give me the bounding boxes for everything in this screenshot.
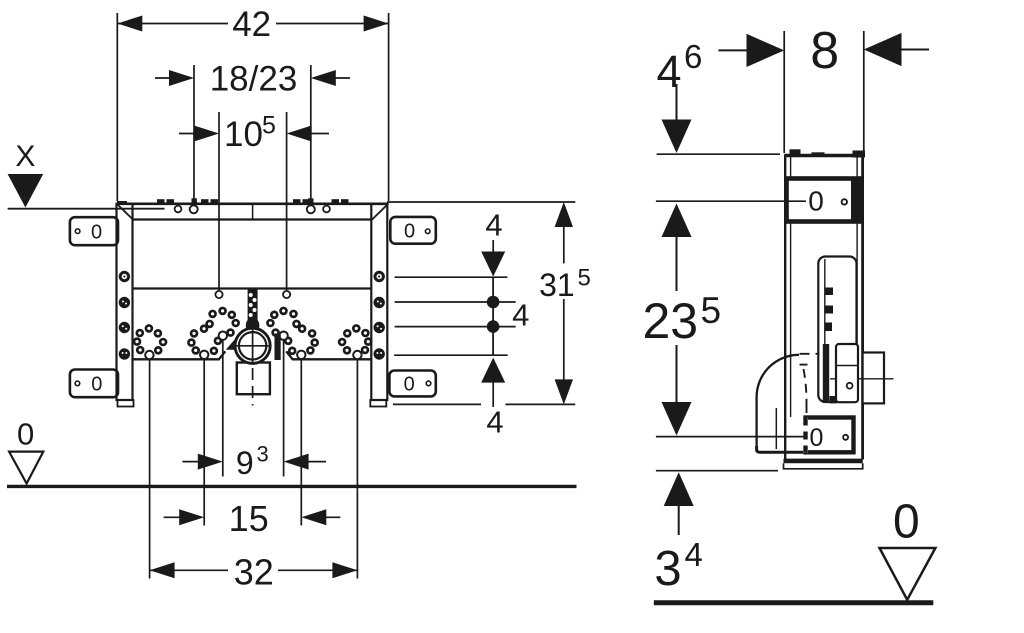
dimension 4.6 horizontal arrow	[718, 49, 748, 51]
frame bottom rail line right segment	[286, 351, 371, 359]
frame mid rail line	[133, 287, 372, 289]
leader line bolt row 3	[395, 326, 516, 328]
dimension 4.6 vertical line	[676, 84, 678, 124]
dimension 31.5 top extension line	[387, 201, 575, 203]
frame top-left corner bevel	[118, 205, 134, 221]
right ground line	[654, 600, 934, 605]
frame bottom rail line left segment	[133, 351, 226, 359]
dimension 32 arrowhead right	[332, 562, 357, 578]
dimension 18/23 extension line right	[310, 65, 312, 205]
dimension 9.3 arrow right	[305, 461, 326, 463]
top tab right corner	[853, 151, 866, 158]
upper fixing box	[787, 179, 861, 222]
anchor ring 10.5 right	[283, 291, 290, 298]
frame bottom thick bar	[784, 459, 863, 464]
leader line bolt row 2	[395, 301, 516, 303]
elbow inner line	[775, 408, 777, 449]
svg-text:32: 32	[234, 552, 274, 593]
mounting tab bottom-right	[389, 371, 435, 397]
wall top extension line	[657, 153, 780, 155]
elbow hidden right edge (dashed)	[806, 404, 808, 448]
flush mechanism hole	[847, 383, 853, 389]
svg-text:6: 6	[684, 38, 702, 75]
leader line bolt row 4	[394, 354, 508, 356]
svg-text:42: 42	[232, 5, 271, 44]
lower fixing box	[806, 418, 854, 453]
svg-text:0: 0	[404, 220, 415, 242]
left wall inner line	[790, 157, 792, 417]
svg-text:4: 4	[486, 405, 503, 440]
pipe outer circle	[235, 328, 270, 363]
cistern rounded rect	[818, 257, 856, 403]
frame foot outline	[784, 463, 863, 469]
extension line 9.3 right	[283, 340, 285, 477]
leader to lower box	[656, 436, 804, 438]
outlet spigot right	[863, 353, 884, 404]
right ground reference triangle	[880, 548, 936, 600]
dimension 18/23 arrow left	[155, 77, 173, 79]
dimension 31.5 vertical line	[563, 222, 565, 263]
cistern clip 1	[825, 288, 834, 296]
svg-text:10: 10	[224, 115, 263, 154]
svg-text:3: 3	[257, 442, 269, 467]
svg-text:X: X	[15, 140, 35, 173]
dimension 32 arrowhead left	[150, 562, 175, 578]
top tab middle	[812, 152, 825, 156]
cistern clip 2	[825, 306, 834, 314]
svg-text:4: 4	[485, 208, 502, 243]
elbow socket bottom	[757, 446, 804, 452]
dimension 42 extension line right	[388, 13, 390, 201]
svg-text:8: 8	[810, 22, 839, 80]
dimension 15 arrow left	[164, 516, 183, 518]
left column	[117, 204, 133, 400]
svg-text:4: 4	[656, 46, 681, 97]
extension line 15 left	[203, 359, 205, 526]
hole cluster c4	[339, 325, 371, 353]
mounting tab bottom-left	[70, 370, 118, 398]
extension line 15 right	[300, 359, 302, 526]
dimension anchor rings	[145, 332, 361, 360]
dimension 15 arrow right	[322, 516, 340, 518]
left column bolts	[119, 271, 130, 360]
svg-text:0: 0	[809, 424, 823, 452]
svg-text:3: 3	[654, 542, 681, 596]
dimension 42 arrowhead left	[117, 16, 142, 32]
svg-text:5: 5	[262, 112, 276, 140]
cistern clip 3	[825, 323, 833, 332]
lower fixing box hole	[843, 435, 848, 440]
svg-text:4: 4	[685, 536, 703, 573]
clamp wedge left of pipe	[226, 338, 236, 350]
frame top edge (side)	[784, 154, 864, 158]
svg-text:15: 15	[229, 498, 269, 539]
vertical connector through dots	[492, 277, 494, 355]
leader to upper box	[656, 200, 806, 202]
dot on row 3	[487, 320, 500, 333]
svg-text:5: 5	[578, 265, 591, 292]
upper fixing box right black bar	[851, 177, 863, 224]
elbow hidden top edge (dashed)	[800, 353, 819, 355]
dimension 42 arrowhead right	[364, 16, 389, 32]
leader line bolt row 1	[395, 276, 508, 278]
left ground line	[7, 485, 577, 488]
section marker X triangle	[8, 174, 44, 208]
dimension 18/23 extension line left	[193, 65, 195, 205]
dimension 8 right arrow	[901, 49, 929, 51]
upper fixing box hole	[842, 199, 847, 204]
dimension 42 line	[117, 23, 228, 25]
dimension 4.6 arrow down	[662, 120, 692, 154]
pipe crosshair vertical	[252, 327, 254, 365]
svg-text:23: 23	[642, 293, 698, 349]
mounting tab top-right	[390, 217, 436, 244]
dimension 4 upper-right stem and arrow	[492, 240, 494, 254]
dimension 18/23 arrow right	[331, 77, 350, 79]
pipe inner circle	[239, 332, 266, 359]
frame top-right corner bevel	[371, 205, 387, 221]
dimension 23.5 arrow down	[662, 402, 692, 436]
dot on row 2	[487, 296, 500, 309]
hole cluster c1	[134, 325, 166, 353]
dimension 23.5 arrow up	[662, 204, 692, 238]
centre line dashes below	[252, 368, 254, 406]
right column foot	[370, 400, 386, 407]
top tab left	[790, 149, 801, 156]
extension line 32 left	[149, 359, 151, 578]
dimension 8 extension line left	[783, 31, 785, 153]
svg-text:18/23: 18/23	[210, 60, 298, 99]
flush mechanism divider	[836, 365, 858, 367]
svg-text:0: 0	[404, 374, 415, 396]
pipe crosshair horizontal	[234, 345, 272, 347]
right column bolts	[374, 271, 385, 360]
drain connector box below pipe	[237, 363, 270, 395]
svg-text:0: 0	[91, 221, 102, 243]
dimension 4 lower-right arrow up	[481, 358, 505, 383]
left column foot	[118, 400, 134, 407]
extension line 32 right	[356, 359, 358, 578]
dimension 42 extension line left	[116, 13, 118, 201]
right wall outer line	[861, 156, 864, 460]
dimension 9.3 arrow left	[182, 461, 201, 463]
flush mechanism box	[836, 344, 858, 402]
elbow hidden inner edge (dashed)	[800, 364, 810, 366]
left ground reference triangle	[9, 452, 43, 484]
hole cluster c2	[188, 308, 238, 354]
elbow hidden bore (dashed curve)	[804, 369, 807, 404]
clamp bar right of pipe	[275, 334, 281, 361]
right column	[371, 204, 387, 400]
flush pipe black bar	[823, 344, 829, 403]
dimension 10.5 arrow left	[179, 133, 198, 135]
svg-text:0: 0	[808, 186, 824, 217]
frame bottom extension leader	[656, 470, 778, 472]
frame top rail inner line	[133, 218, 372, 220]
dimension 31.5 arrow down	[555, 379, 573, 404]
left wall outer line	[784, 156, 786, 460]
anchor ring 10.5 left	[215, 291, 222, 298]
frame top edge	[117, 203, 389, 206]
elbow outer contour	[757, 355, 799, 446]
dimension 31.5 bottom extension line	[393, 403, 481, 405]
dimension 23.5 lower line	[676, 345, 678, 402]
pipe clamp top blob	[246, 318, 260, 334]
svg-text:0: 0	[17, 417, 34, 452]
svg-text:5: 5	[701, 290, 722, 331]
frame top rail centre seam	[252, 204, 254, 220]
svg-text:9: 9	[236, 445, 254, 481]
dimension 3.4 arrow up	[664, 472, 694, 506]
hole cluster c3	[267, 308, 317, 354]
top edge screw rings	[175, 206, 182, 213]
dimension 10.5 extension line right	[286, 112, 288, 290]
centre line tick	[246, 393, 258, 395]
svg-text:0: 0	[91, 374, 102, 396]
mechanism base black bit	[830, 396, 837, 403]
dimension 10.5 extension line left	[218, 112, 220, 290]
lower fixing box dashed left edge	[803, 418, 808, 453]
svg-text:31: 31	[539, 267, 575, 303]
extension line 9.3 left	[222, 340, 224, 477]
wall top line	[8, 208, 165, 210]
dimension 8 extension line right	[863, 31, 865, 152]
right wall inner line	[856, 157, 858, 352]
top edge screw lugs	[157, 199, 349, 204]
svg-text:0: 0	[893, 496, 920, 549]
outlet centre line	[830, 378, 894, 380]
svg-text:4: 4	[512, 298, 529, 333]
dimension 32 line	[150, 569, 228, 571]
mounting tab top-left	[70, 217, 118, 245]
dimension 10.5 arrow right	[307, 133, 329, 135]
threaded rod above pipe clamp	[248, 290, 258, 326]
cistern inner wall line	[824, 259, 826, 399]
top-left corner nub	[117, 201, 127, 205]
dimension 31.5 arrow up	[555, 202, 573, 227]
